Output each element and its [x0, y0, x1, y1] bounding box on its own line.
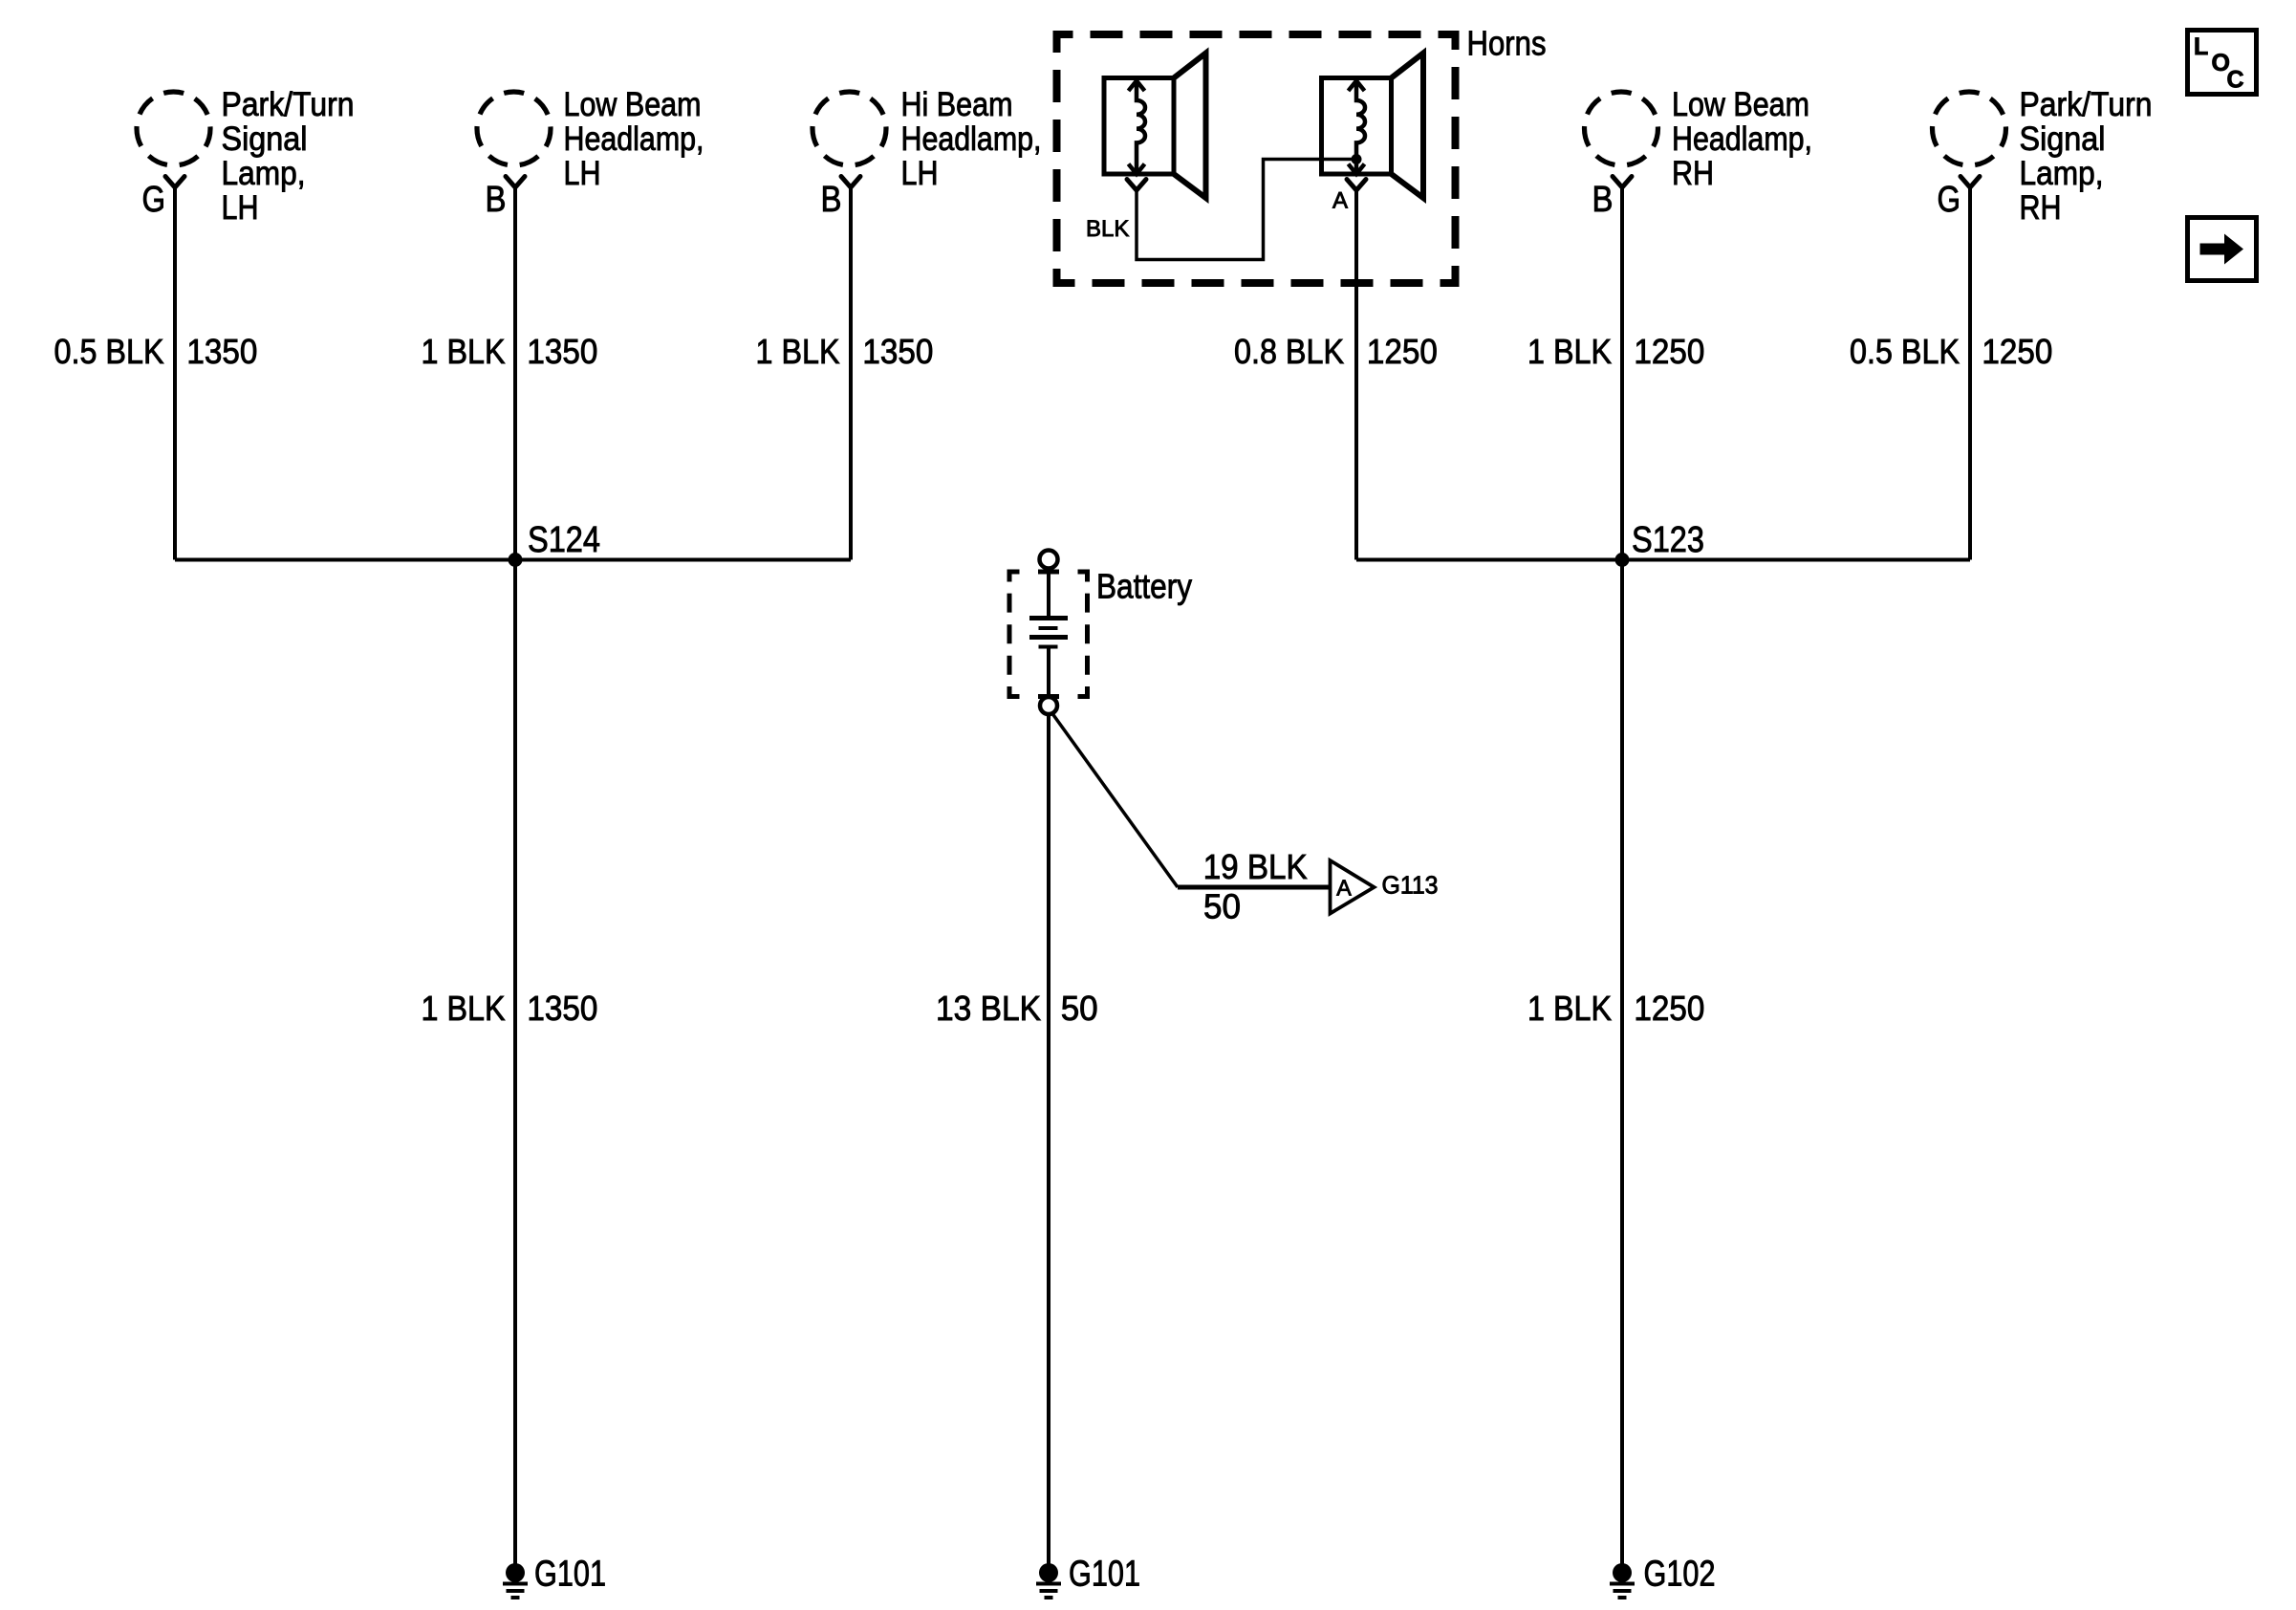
svg-text:RH: RH [2020, 189, 2062, 227]
lamp L5: Park/Turn Signal Lamp RH [1933, 92, 2006, 187]
ground G101 (battery) [1036, 1563, 1061, 1598]
wire: Low Beam LH drop through S124 to G101 (1 BLK 1350) [513, 187, 517, 1573]
battery plate long 1 [1029, 616, 1068, 620]
svg-text:Headlamp,: Headlamp, [564, 120, 704, 158]
svg-text:RH: RH [1672, 155, 1714, 192]
svg-text:G101: G101 [1069, 1555, 1140, 1595]
svg-text:LH: LH [222, 189, 259, 227]
svg-text:1250: 1250 [1367, 332, 1438, 371]
wire: horn H1 ground jumper to horn H2 [1137, 160, 1356, 260]
svg-text:50: 50 [1203, 887, 1241, 926]
svg-text:G101: G101 [534, 1555, 606, 1595]
label: Park/Turn Signal Lamp, RH [2020, 86, 2153, 227]
svg-text:1350: 1350 [186, 332, 257, 371]
svg-text:G: G [142, 180, 166, 220]
label: Hi Beam Headlamp, LH [901, 86, 1042, 192]
wire: left ground bus into S124 [175, 558, 851, 562]
svg-text:Horns: Horns [1467, 24, 1547, 63]
wire: battery negative to G101 (13 BLK 50) [1047, 714, 1051, 1573]
svg-text:A: A [1336, 876, 1352, 901]
svg-text:1250: 1250 [1634, 332, 1704, 371]
ground G102 [1610, 1563, 1635, 1598]
svg-text:1250: 1250 [1634, 989, 1704, 1028]
lamp L1: Park/Turn Signal Lamp LH (dashed circle connector) [137, 92, 210, 187]
svg-text:B: B [821, 180, 842, 220]
svg-text:Park/Turn: Park/Turn [222, 86, 355, 123]
svg-text:S124: S124 [528, 520, 600, 560]
svg-text:Headlamp,: Headlamp, [901, 120, 1042, 158]
svg-text:Hi Beam: Hi Beam [901, 86, 1013, 123]
horn H1 (left horn) body [1104, 54, 1206, 199]
horn H2 connector Y [1347, 180, 1366, 191]
svg-text:G113: G113 [1382, 873, 1439, 900]
horn H1 connector Y [1127, 180, 1146, 191]
Horns dashed enclosure box [1057, 34, 1456, 283]
svg-text:G: G [1938, 180, 1961, 220]
label: Park/Turn Signal Lamp, LH [222, 86, 355, 227]
battery plate short 2 [1039, 645, 1058, 649]
svg-text:G102: G102 [1644, 1555, 1716, 1595]
battery internal lead (bottom) [1047, 647, 1051, 698]
horn H1 coil [1129, 81, 1146, 175]
arrow navigation box icon [2188, 218, 2257, 281]
wire: branch horizontal to G113 connector [1178, 885, 1331, 890]
svg-text:L: L [2194, 33, 2208, 60]
wire: Park/Turn RH drop (0.5 BLK 1250) [1968, 187, 1972, 560]
svg-text:BLK: BLK [1086, 216, 1129, 242]
junction dot inside horn H2 [1352, 154, 1362, 164]
LOC reference box icon [2188, 31, 2257, 95]
battery bottom terminal circle [1040, 697, 1057, 714]
svg-text:S123: S123 [1632, 520, 1704, 560]
wire: battery negative branch diagonal (19 BLK 50) [1051, 712, 1178, 887]
svg-text:Signal: Signal [2020, 120, 2106, 158]
wire: horn drop (0.8 BLK 1250) [1354, 190, 1358, 560]
battery top terminal circle [1040, 551, 1058, 569]
svg-text:LH: LH [564, 155, 601, 192]
svg-text:Battery: Battery [1096, 567, 1192, 606]
lamp L3: Hi Beam Headlamp LH [812, 92, 886, 187]
splice S124 [509, 553, 523, 567]
svg-text:1350: 1350 [862, 332, 933, 371]
Battery dashed enclosure box [1009, 572, 1088, 697]
svg-text:B: B [1592, 180, 1614, 220]
svg-text:B: B [486, 180, 507, 220]
svg-text:Lamp,: Lamp, [2020, 155, 2104, 192]
svg-text:0.8 BLK: 0.8 BLK [1234, 332, 1344, 371]
svg-text:1 BLK: 1 BLK [756, 332, 840, 371]
svg-text:1350: 1350 [527, 332, 597, 371]
lamp L4: Low Beam Headlamp RH [1585, 92, 1658, 187]
svg-text:Park/Turn: Park/Turn [2020, 86, 2153, 123]
svg-text:1350: 1350 [527, 989, 597, 1028]
battery plate long 2 [1029, 635, 1068, 640]
battery plate short 1 [1039, 626, 1058, 630]
svg-text:LH: LH [901, 155, 939, 192]
label: Low Beam Headlamp, RH [1672, 86, 1812, 192]
svg-text:Headlamp,: Headlamp, [1672, 120, 1812, 158]
svg-text:Signal: Signal [222, 120, 308, 158]
svg-text:Low Beam: Low Beam [1672, 86, 1809, 123]
svg-text:0.5 BLK: 0.5 BLK [1850, 332, 1960, 371]
svg-text:0.5 BLK: 0.5 BLK [54, 332, 164, 371]
svg-text:1250: 1250 [1982, 332, 2052, 371]
svg-text:50: 50 [1061, 989, 1098, 1028]
battery internal lead (top) [1047, 569, 1051, 619]
wire: Park/Turn LH drop (0.5 BLK 1350) [173, 187, 177, 560]
svg-text:A: A [1332, 188, 1348, 214]
svg-text:1 BLK: 1 BLK [1527, 989, 1612, 1028]
svg-text:19 BLK: 19 BLK [1203, 847, 1308, 886]
horn H2 (right horn) body [1322, 54, 1424, 199]
svg-text:1 BLK: 1 BLK [422, 989, 506, 1028]
svg-text:C: C [2227, 67, 2244, 94]
wire: right ground bus into S123 [1356, 558, 1970, 562]
svg-text:Low Beam: Low Beam [564, 86, 702, 123]
svg-text:Lamp,: Lamp, [222, 155, 306, 192]
connector triangle to G113 [1331, 860, 1375, 914]
wire: Hi Beam LH drop (1 BLK 1350) [849, 187, 853, 560]
svg-text:1 BLK: 1 BLK [422, 332, 506, 371]
ground G101 (left) [503, 1563, 528, 1598]
lamp L2: Low Beam Headlamp LH [477, 92, 551, 187]
label: Low Beam Headlamp, LH [564, 86, 704, 192]
splice S123 [1615, 553, 1630, 567]
svg-text:13 BLK: 13 BLK [936, 989, 1041, 1028]
horn H2 coil [1349, 81, 1366, 175]
wire: Low Beam RH drop through S123 to G102 (1 BLK 1250) [1620, 187, 1624, 1573]
svg-text:1 BLK: 1 BLK [1527, 332, 1612, 371]
